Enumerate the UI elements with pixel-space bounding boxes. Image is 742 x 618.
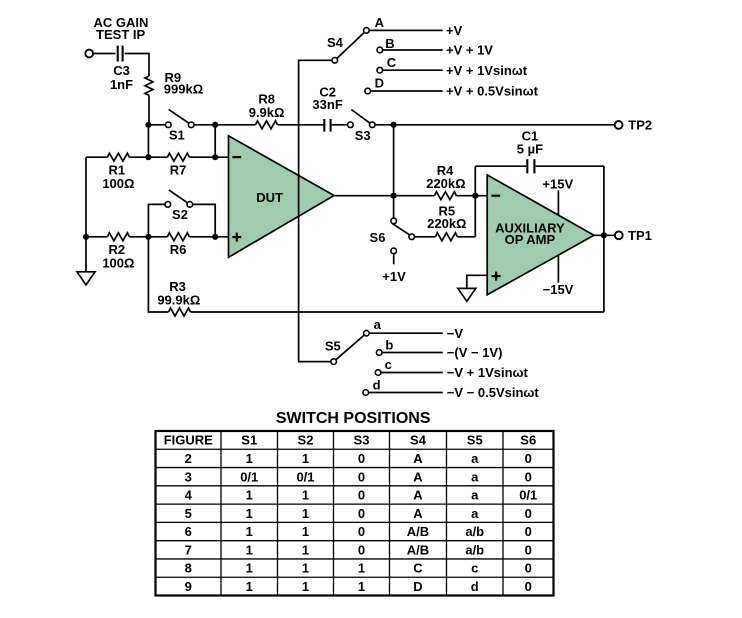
svg-text:R7: R7 — [170, 163, 187, 178]
svg-text:B: B — [385, 36, 394, 51]
svg-text:d: d — [373, 378, 381, 393]
svg-text:0/1: 0/1 — [296, 469, 314, 484]
svg-text:a/b: a/b — [465, 524, 484, 539]
svg-text:b: b — [385, 338, 393, 353]
svg-text:1: 1 — [358, 579, 365, 594]
svg-text:0: 0 — [525, 579, 532, 594]
svg-text:5: 5 — [185, 506, 192, 521]
svg-text:2: 2 — [185, 451, 192, 466]
svg-text:1: 1 — [246, 488, 253, 503]
svg-text:+V: +V — [446, 23, 463, 38]
svg-text:220kΩ: 220kΩ — [426, 176, 465, 191]
svg-text:A: A — [413, 469, 423, 484]
svg-text:A: A — [413, 506, 423, 521]
svg-text:4: 4 — [185, 488, 193, 503]
svg-text:6: 6 — [185, 524, 192, 539]
svg-text:8: 8 — [185, 561, 192, 576]
svg-text:0: 0 — [358, 542, 365, 557]
svg-text:A/B: A/B — [407, 542, 429, 557]
svg-text:a: a — [471, 506, 479, 521]
svg-text:A/B: A/B — [407, 524, 429, 539]
svg-text:+V + 1V: +V + 1V — [446, 43, 493, 58]
svg-text:A: A — [375, 15, 385, 30]
svg-text:9.9kΩ: 9.9kΩ — [249, 105, 285, 120]
svg-text:1: 1 — [246, 506, 253, 521]
svg-text:+V + 0.5Vsinωt: +V + 0.5Vsinωt — [446, 84, 539, 99]
svg-text:C: C — [387, 55, 397, 70]
svg-text:0: 0 — [525, 542, 532, 557]
svg-text:S5: S5 — [467, 433, 483, 448]
svg-text:1: 1 — [358, 561, 365, 576]
svg-text:a: a — [471, 469, 479, 484]
svg-text:FIGURE: FIGURE — [164, 433, 213, 448]
svg-text:1: 1 — [246, 451, 253, 466]
svg-text:S6: S6 — [520, 433, 536, 448]
svg-text:S1: S1 — [241, 433, 257, 448]
svg-text:1: 1 — [302, 542, 309, 557]
svg-text:100Ω: 100Ω — [102, 176, 134, 191]
svg-text:S3: S3 — [355, 128, 371, 143]
svg-text:S6: S6 — [370, 230, 386, 245]
svg-text:D: D — [375, 76, 384, 91]
svg-text:0: 0 — [358, 469, 365, 484]
svg-text:0: 0 — [525, 451, 532, 466]
svg-text:a: a — [471, 488, 479, 503]
svg-text:A: A — [413, 451, 423, 466]
svg-text:C3: C3 — [113, 63, 130, 78]
svg-text:c: c — [385, 357, 392, 372]
svg-text:S2: S2 — [172, 207, 188, 222]
svg-text:TEST IP: TEST IP — [96, 27, 145, 42]
svg-text:DUT: DUT — [256, 190, 283, 205]
svg-text:7: 7 — [185, 542, 192, 557]
svg-text:S1: S1 — [169, 127, 185, 142]
svg-text:+15V: +15V — [542, 176, 573, 191]
svg-text:1: 1 — [302, 451, 309, 466]
svg-text:1: 1 — [302, 579, 309, 594]
svg-text:OP AMP: OP AMP — [505, 232, 556, 247]
svg-text:0: 0 — [525, 506, 532, 521]
svg-text:a: a — [471, 451, 479, 466]
svg-text:a/b: a/b — [465, 542, 484, 557]
svg-text:33nF: 33nF — [312, 97, 342, 112]
svg-text:0: 0 — [358, 451, 365, 466]
svg-text:0: 0 — [525, 469, 532, 484]
svg-text:SWITCH POSITIONS: SWITCH POSITIONS — [276, 410, 431, 427]
svg-text:1: 1 — [246, 579, 253, 594]
svg-text:9: 9 — [185, 579, 192, 594]
svg-text:1: 1 — [246, 542, 253, 557]
svg-text:S5: S5 — [325, 339, 341, 354]
svg-text:0/1: 0/1 — [240, 469, 258, 484]
svg-text:99.9kΩ: 99.9kΩ — [157, 293, 200, 308]
svg-text:−V − 0.5Vsinωt: −V − 0.5Vsinωt — [447, 385, 540, 400]
svg-text:3: 3 — [185, 469, 192, 484]
svg-text:0: 0 — [525, 561, 532, 576]
svg-text:S4: S4 — [410, 433, 427, 448]
svg-text:A: A — [413, 488, 423, 503]
svg-text:1: 1 — [246, 561, 253, 576]
svg-text:S2: S2 — [298, 433, 314, 448]
svg-text:−15V: −15V — [543, 282, 574, 297]
svg-text:S4: S4 — [327, 35, 344, 50]
svg-text:TP1: TP1 — [628, 228, 652, 243]
svg-text:1: 1 — [302, 506, 309, 521]
svg-text:0: 0 — [358, 506, 365, 521]
svg-text:0: 0 — [358, 524, 365, 539]
svg-text:TP2: TP2 — [628, 118, 652, 133]
svg-text:1: 1 — [302, 561, 309, 576]
svg-text:−V + 1Vsinωt: −V + 1Vsinωt — [447, 365, 529, 380]
svg-text:R6: R6 — [170, 242, 187, 257]
svg-text:+V + 1Vsinωt: +V + 1Vsinωt — [446, 63, 528, 78]
svg-text:c: c — [471, 561, 478, 576]
svg-text:d: d — [471, 579, 479, 594]
svg-text:0: 0 — [358, 488, 365, 503]
svg-text:220kΩ: 220kΩ — [427, 216, 466, 231]
svg-text:1: 1 — [302, 524, 309, 539]
svg-text:0/1: 0/1 — [519, 488, 537, 503]
svg-text:C: C — [413, 561, 423, 576]
svg-text:5 µF: 5 µF — [517, 142, 543, 157]
svg-text:999kΩ: 999kΩ — [164, 82, 203, 97]
svg-text:S3: S3 — [354, 433, 370, 448]
svg-text:+1V: +1V — [382, 269, 406, 284]
svg-text:−(V − 1V): −(V − 1V) — [447, 345, 503, 360]
svg-text:1nF: 1nF — [110, 77, 133, 92]
svg-text:100Ω: 100Ω — [102, 256, 134, 271]
svg-text:a: a — [374, 317, 382, 332]
svg-text:0: 0 — [525, 524, 532, 539]
svg-text:D: D — [413, 579, 422, 594]
svg-text:1: 1 — [302, 488, 309, 503]
svg-text:−V: −V — [447, 326, 464, 341]
svg-text:1: 1 — [246, 524, 253, 539]
